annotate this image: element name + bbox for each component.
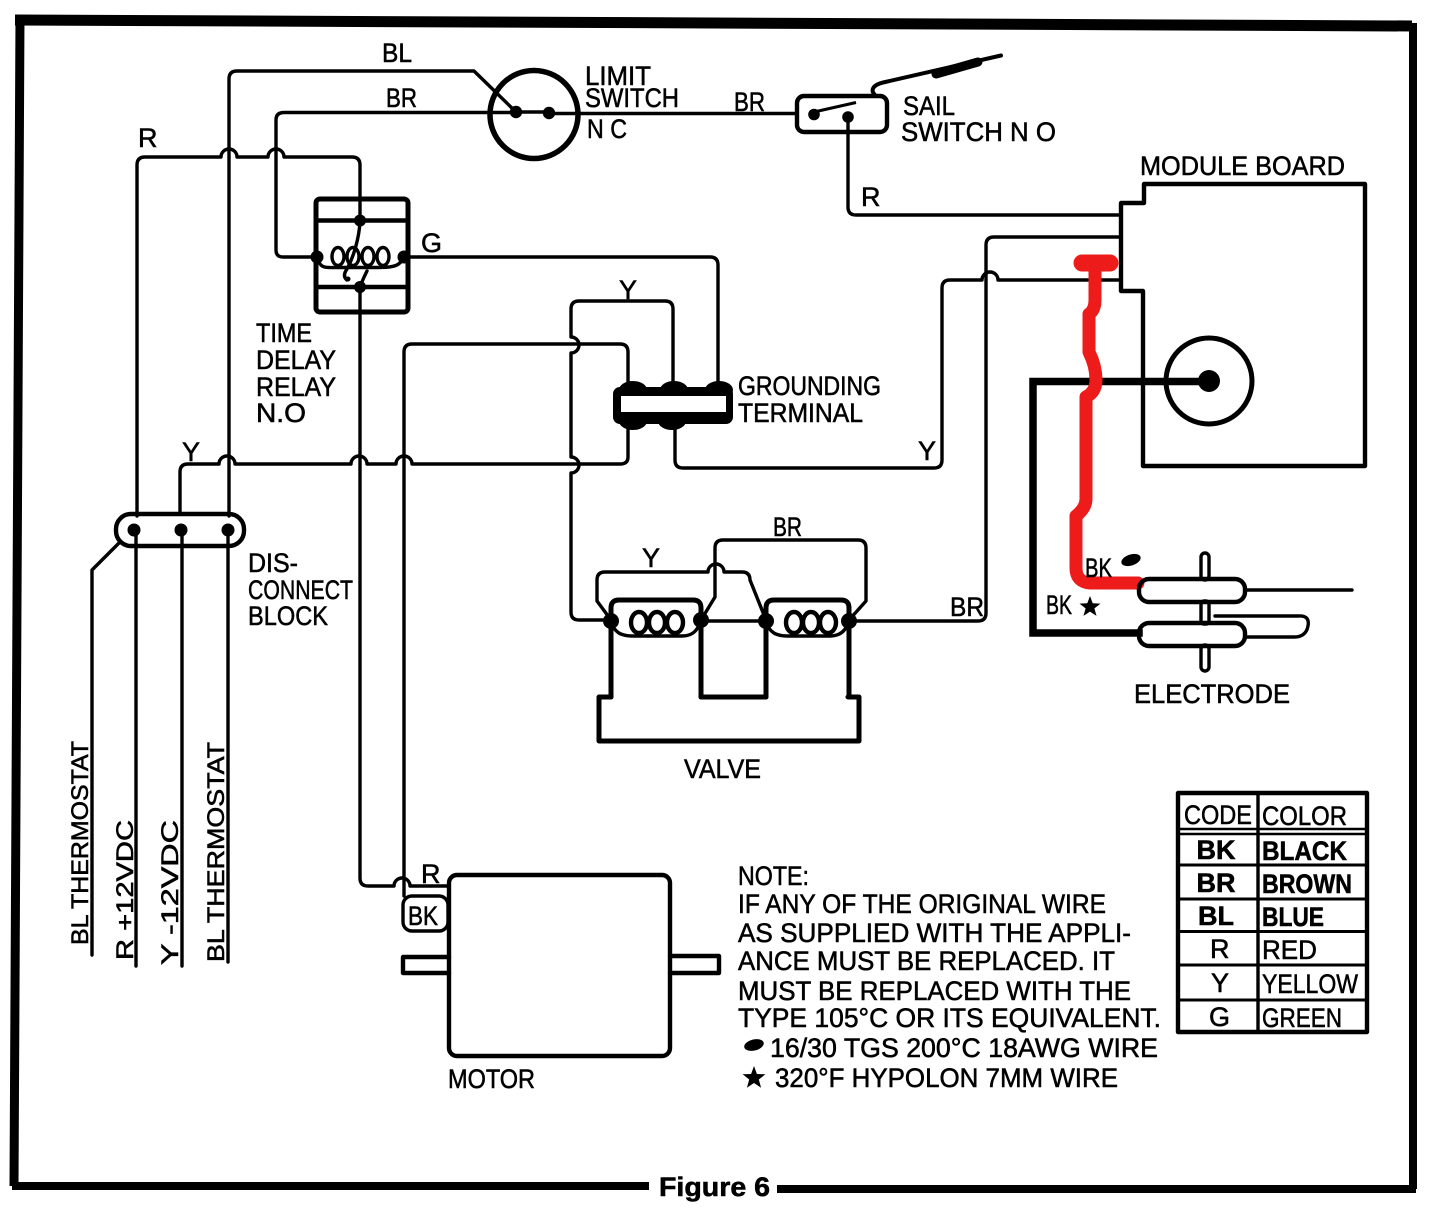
svg-text:TIME: TIME bbox=[256, 318, 312, 348]
svg-text:N.O: N.O bbox=[256, 398, 306, 428]
red jumper wire bbox=[1082, 255, 1110, 272]
svg-text:COLOR: COLOR bbox=[1262, 801, 1347, 831]
svg-text:BLOCK: BLOCK bbox=[248, 601, 328, 631]
svg-text:R: R bbox=[1210, 934, 1230, 964]
svg-text:BK: BK bbox=[1197, 835, 1236, 865]
wire BL bbox=[229, 71, 516, 516]
svg-text:BR: BR bbox=[1197, 868, 1236, 898]
svg-text:Y -12VDC: Y -12VDC bbox=[157, 820, 184, 965]
svg-text:DELAY: DELAY bbox=[256, 345, 336, 375]
svg-text:MOTOR: MOTOR bbox=[448, 1064, 535, 1094]
svg-text:VALVE: VALVE bbox=[684, 754, 761, 784]
svg-text:R +12VDC: R +12VDC bbox=[112, 820, 139, 960]
svg-text:RED: RED bbox=[1262, 935, 1317, 965]
wire grounding to motor BK bbox=[404, 344, 628, 896]
wire BR valve loop bbox=[701, 540, 866, 620]
note text bbox=[738, 861, 1161, 1093]
wire Y valve trapezoid bbox=[597, 564, 766, 620]
wire BR valve to module bbox=[850, 237, 1121, 621]
time delay relay bbox=[311, 199, 411, 312]
svg-text:YELLOW: YELLOW bbox=[1262, 969, 1358, 999]
wire R sail switch to module board bbox=[848, 123, 1121, 215]
svg-text:G: G bbox=[421, 228, 442, 258]
svg-text:Y: Y bbox=[619, 275, 637, 305]
wire Y thermostat bbox=[180, 424, 628, 514]
svg-text:R: R bbox=[138, 123, 158, 153]
motor bbox=[403, 875, 719, 1056]
wire relay to motor R bbox=[360, 289, 449, 886]
svg-text:Figure 6: Figure 6 bbox=[659, 1172, 770, 1202]
wire BR bbox=[276, 113, 516, 258]
svg-text:R: R bbox=[421, 859, 441, 889]
electrode bbox=[1139, 553, 1352, 671]
svg-text:IF ANY OF THE ORIGINAL WIRE: IF ANY OF THE ORIGINAL WIRE bbox=[738, 889, 1106, 919]
svg-text:Y: Y bbox=[918, 436, 936, 466]
wire Y grounding loop bbox=[571, 301, 673, 620]
svg-text:Y: Y bbox=[642, 543, 660, 573]
svg-text:BR: BR bbox=[734, 87, 765, 117]
svg-text:TERMINAL: TERMINAL bbox=[738, 398, 863, 428]
module terminal circle bbox=[1166, 338, 1252, 424]
svg-text:BR: BR bbox=[773, 512, 802, 542]
svg-text:BL THERMOSTAT: BL THERMOSTAT bbox=[67, 741, 94, 945]
svg-text:DIS-: DIS- bbox=[248, 548, 298, 578]
wire G bbox=[404, 257, 718, 386]
svg-text:MODULE BOARD: MODULE BOARD bbox=[1140, 151, 1345, 181]
svg-text:BROWN: BROWN bbox=[1262, 869, 1352, 899]
svg-text:BLUE: BLUE bbox=[1262, 902, 1324, 932]
svg-text:SWITCH: SWITCH bbox=[585, 83, 679, 113]
svg-text:N C: N C bbox=[587, 114, 627, 144]
svg-text:BK: BK bbox=[1085, 553, 1112, 583]
wire R thermostat lead bbox=[134, 532, 137, 966]
svg-text:GROUNDING: GROUNDING bbox=[738, 371, 881, 401]
svg-text:BR: BR bbox=[386, 83, 417, 113]
svg-text:BL: BL bbox=[1198, 901, 1234, 931]
disconnect block bbox=[116, 514, 244, 546]
wire BR limit switch to sail switch bbox=[549, 112, 797, 115]
svg-text:NOTE:: NOTE: bbox=[738, 861, 809, 891]
limit switch bbox=[490, 71, 578, 159]
wire BL thermostat lead 2 bbox=[226, 532, 229, 962]
svg-text:AS SUPPLIED WITH THE APPLI-: AS SUPPLIED WITH THE APPLI- bbox=[738, 918, 1131, 948]
svg-text:320°F HYPOLON 7MM WIRE: 320°F HYPOLON 7MM WIRE bbox=[775, 1063, 1118, 1093]
wire BL thermostat lead bbox=[92, 543, 119, 955]
svg-text:BL THERMOSTAT: BL THERMOSTAT bbox=[203, 742, 230, 962]
valve bbox=[599, 600, 859, 741]
module board bbox=[1121, 184, 1365, 466]
svg-text:CODE: CODE bbox=[1184, 800, 1252, 830]
svg-text:16/30 TGS 200°C 18AWG WIRE: 16/30 TGS 200°C 18AWG WIRE bbox=[770, 1033, 1158, 1063]
grounding terminal bbox=[613, 381, 733, 430]
svg-text:Y: Y bbox=[1211, 968, 1229, 998]
svg-text:BL: BL bbox=[382, 38, 412, 68]
svg-text:SWITCH N O: SWITCH N O bbox=[901, 117, 1056, 147]
svg-text:BR: BR bbox=[950, 592, 984, 622]
wire R thermostat bbox=[137, 149, 360, 516]
wire BK thick bbox=[1033, 382, 1202, 634]
svg-text:Y: Y bbox=[182, 437, 200, 467]
svg-text:BLACK: BLACK bbox=[1262, 836, 1347, 866]
svg-text:ANCE MUST BE REPLACED. IT: ANCE MUST BE REPLACED. IT bbox=[738, 946, 1115, 976]
svg-text:BK: BK bbox=[1046, 590, 1072, 620]
wire Y grounding to module bbox=[675, 272, 1118, 468]
sail switch bbox=[797, 56, 1001, 133]
svg-text:TYPE 105°C OR ITS EQUIVALENT.: TYPE 105°C OR ITS EQUIVALENT. bbox=[738, 1003, 1161, 1033]
svg-text:GREEN: GREEN bbox=[1262, 1003, 1342, 1033]
color code table bbox=[1178, 793, 1367, 1033]
wire Y thermostat lead bbox=[180, 532, 183, 966]
svg-text:R: R bbox=[861, 182, 881, 212]
svg-text:ELECTRODE: ELECTRODE bbox=[1134, 679, 1290, 709]
svg-text:MUST BE REPLACED WITH THE: MUST BE REPLACED WITH THE bbox=[738, 976, 1131, 1006]
svg-text:G: G bbox=[1209, 1002, 1230, 1032]
svg-text:BK: BK bbox=[408, 901, 438, 931]
